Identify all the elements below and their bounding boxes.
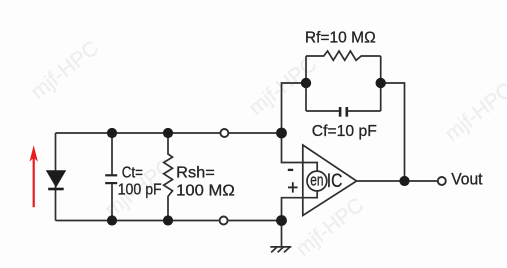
terminal top (open circle) [220, 129, 228, 137]
junction dot feedback left [301, 78, 311, 88]
wire non-inverting input [282, 191, 318, 221]
junction dot node top-Rsh [163, 128, 173, 138]
feedback network left vertical wire [305, 56, 307, 111]
wire ground drop [281, 221, 283, 247]
svg-text:mjf-HPC: mjf-HPC [27, 37, 103, 104]
svg-text:Rsh=: Rsh= [176, 165, 215, 182]
watermark (decorative) [27, 37, 507, 261]
capacitor Ct plates [105, 175, 117, 183]
feedback network right vertical wire [380, 56, 382, 111]
terminal Vout (open circle) [438, 177, 446, 185]
wire left vertical [55, 133, 57, 221]
resistor Rf (zigzag on feedback top wire) [306, 51, 381, 60]
terminal bottom (open circle) [220, 217, 228, 225]
wire top bus [56, 132, 282, 134]
ground symbol [270, 247, 291, 253]
wire feedback bottom left (to Cf) [306, 110, 339, 112]
svg-text:Ct=: Ct= [122, 165, 143, 182]
junction dot feedback right [376, 78, 386, 88]
wire feedback tap right to output [381, 83, 405, 181]
op-amp non-inverting marker (+) [288, 182, 298, 192]
svg-text:Vout: Vout [451, 169, 483, 188]
svg-text:Rf=10 MΩ: Rf=10 MΩ [305, 30, 376, 47]
svg-text:Cf=10 pF: Cf=10 pF [312, 123, 377, 140]
wire inverting input [282, 133, 318, 171]
junction dot node ground [276, 215, 287, 226]
light arrow (red) [30, 145, 38, 207]
svg-text:IC: IC [327, 171, 343, 192]
capacitor Cf plates [340, 107, 347, 117]
junction dot node bottom-Ct [107, 215, 117, 225]
op-amp triangle [303, 145, 357, 216]
wire feedback tap left [282, 83, 307, 133]
photodiode D (filled triangle + cathode bar) [46, 170, 66, 189]
svg-text:100 pF: 100 pF [118, 181, 162, 198]
wire bottom bus [56, 220, 282, 222]
junction dot node top-Ct [107, 128, 117, 138]
junction dot node bottom-Rsh [163, 215, 173, 225]
junction dot output node [399, 176, 409, 186]
wire feedback bottom right (from Cf) [348, 110, 381, 112]
svg-text:mjf-HPC: mjf-HPC [441, 79, 507, 146]
noise source en (circle) [307, 171, 327, 191]
wire Rsh branch with resistor zigzag [164, 133, 173, 221]
wire output [357, 180, 438, 182]
wire Ct branch lower [111, 184, 113, 221]
svg-text:en: en [310, 171, 323, 190]
op-amp inverting marker (-) [288, 169, 293, 171]
junction dot node inverting input [276, 128, 287, 139]
wire Ct branch upper [111, 133, 113, 175]
svg-text:100 MΩ: 100 MΩ [176, 183, 235, 200]
